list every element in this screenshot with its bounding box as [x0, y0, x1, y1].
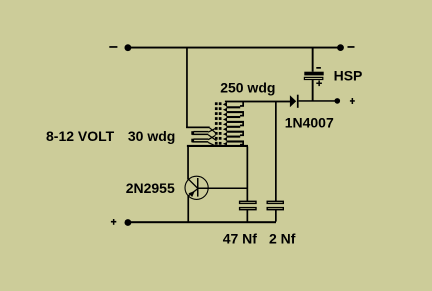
capacitor C2 2 Nf: [267, 201, 283, 209]
transformer T1 primary loop 1: [191, 131, 208, 135]
svg-text:30 wdg: 30 wdg: [128, 128, 175, 144]
transformer T1 primary 30 wdg entry lead: [186, 127, 210, 129]
transistor Q1 2N2955: [185, 176, 208, 199]
label minus HSP: [316, 67, 321, 69]
wire left vertical from top rail to winding entry: [186, 48, 188, 129]
wire C1 bottom lead: [247, 209, 249, 221]
wire C1 top lead: [247, 147, 249, 202]
svg-text:1N4007: 1N4007: [285, 115, 334, 131]
label 2N2955: [126, 180, 175, 196]
capacitor C3 HSP electrolytic: [304, 72, 323, 80]
label minus top-left: [109, 46, 117, 48]
svg-text:250 wdg: 250 wdg: [220, 80, 275, 96]
node dot bottom-left: [125, 219, 132, 226]
svg-text:47 Nf: 47 Nf: [223, 231, 258, 247]
label 30 wdg: [128, 128, 175, 144]
wire bottom rail: [128, 221, 276, 223]
wire base line to C1 junction: [199, 188, 249, 190]
wire diode cathode to output node: [299, 100, 336, 102]
wire 250 wdg top lead to diode anode: [225, 101, 290, 103]
capacitor C1 47 Nf: [240, 201, 256, 209]
diode D1 1N4007: [290, 95, 299, 108]
svg-text:2 Nf: 2 Nf: [269, 231, 296, 247]
svg-text:2N2955: 2N2955: [126, 180, 175, 196]
wire HSP top lead: [312, 48, 314, 72]
label 250 wdg: [220, 80, 275, 96]
wire C2 top lead: [275, 102, 277, 201]
label HSP: [334, 68, 363, 84]
transformer T1 primary diagonal connectors: [208, 128, 216, 147]
label 47 Nf: [223, 231, 258, 247]
label 8-12 VOLT: [46, 128, 115, 144]
node dot top-right: [337, 44, 344, 51]
label plus bottom-left: [111, 219, 116, 225]
label 1N4007: [285, 115, 334, 131]
transformer T1 secondary left closure diamonds: [223, 102, 227, 146]
transformer T1 core dashed lines: [215, 102, 222, 144]
transformer T1 secondary 250 wdg loops: [226, 102, 244, 146]
wire C2 bottom lead: [275, 209, 277, 221]
label plus output: [350, 98, 355, 104]
transformer T1 primary loop 2: [191, 138, 208, 142]
wire top rail: [128, 47, 341, 49]
svg-text:8-12 VOLT: 8-12 VOLT: [46, 128, 115, 144]
wire collector vertical: [187, 146, 189, 180]
wire emitter vertical: [187, 196, 189, 223]
label plus HSP: [316, 81, 322, 87]
node dot top-left: [125, 44, 132, 51]
label minus top-right: [348, 46, 355, 48]
wire HSP bottom lead: [312, 80, 314, 101]
wire winding common bottom lead: [187, 145, 248, 147]
label 2 Nf: [269, 231, 296, 247]
node dot output plus: [335, 98, 341, 104]
svg-text:HSP: HSP: [334, 68, 363, 84]
